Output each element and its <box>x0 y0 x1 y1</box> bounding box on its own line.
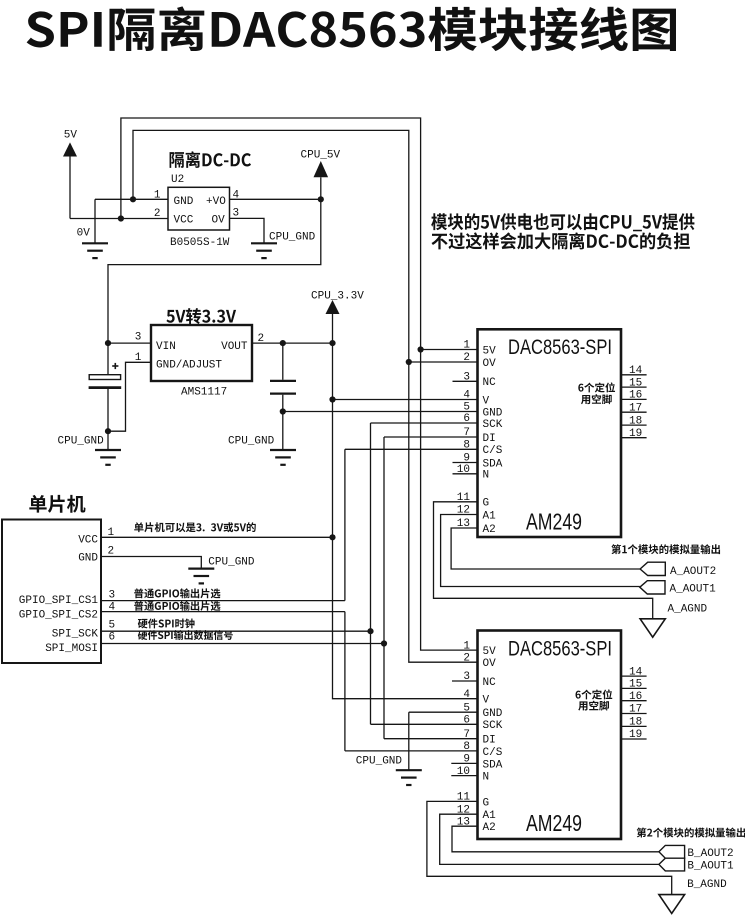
svg-text:AM249: AM249 <box>526 810 582 836</box>
svg-text:CPU_GND: CPU_GND <box>269 232 316 244</box>
note 6个定位 B <box>576 689 613 699</box>
wire VIN row <box>108 342 151 344</box>
wire 0V bus to DAC blocks <box>133 130 478 662</box>
svg-text:CPU_GND: CPU_GND <box>356 756 403 768</box>
svg-text:DI: DI <box>483 735 496 747</box>
dacB pin9 stub <box>451 762 477 764</box>
wire dacB A1 to B_AOUT1 <box>440 814 659 864</box>
dacA pin3 stub <box>453 380 478 382</box>
svg-text:G: G <box>483 498 490 510</box>
svg-text:DI: DI <box>483 433 496 445</box>
svg-text:3: 3 <box>109 590 116 602</box>
capacitor C2 output cap <box>282 343 284 380</box>
svg-text:2: 2 <box>108 546 115 558</box>
wire CPU_5V stem <box>320 177 322 199</box>
dacB pin10 stub <box>451 775 477 777</box>
ground symbol B_AGND open triangle <box>659 895 685 914</box>
wire dacB G to B_AGND <box>427 801 672 894</box>
wire dacB pin5 GND row <box>409 711 478 713</box>
svg-text:B_AGND: B_AGND <box>687 879 727 891</box>
svg-text:GND: GND <box>174 196 194 208</box>
junction SCK bus <box>367 628 373 634</box>
svg-text:DAC8563-SPI: DAC8563-SPI <box>508 638 612 661</box>
regulator U3 AMS1117 box <box>151 325 252 381</box>
wire GND/ADJUST to cap C1 bottom <box>108 362 151 431</box>
svg-text:6: 6 <box>109 632 116 644</box>
C1 plus sign <box>112 363 118 369</box>
svg-text:AM249: AM249 <box>526 509 582 535</box>
power symbol CPU_5V arrow <box>314 161 329 177</box>
svg-text:A_AOUT1: A_AOUT1 <box>670 584 717 596</box>
svg-text:5: 5 <box>109 620 116 632</box>
junction MOSI bus <box>381 640 387 646</box>
dacA pin9 stub <box>453 462 478 464</box>
label 隔离DC-DC <box>170 151 251 168</box>
svg-text:CPU_5V: CPU_5V <box>301 150 341 162</box>
note 普通GPIO输出片选 CS1 <box>134 588 220 598</box>
svg-text:SPI_SCK: SPI_SCK <box>52 629 99 641</box>
mcu block box <box>2 520 101 664</box>
svg-text:4: 4 <box>463 689 470 701</box>
note line1 模块的5V供电... <box>431 213 694 231</box>
wire CS2 row <box>101 611 345 613</box>
dacB pin16 stub <box>621 700 647 702</box>
svg-text:VIN: VIN <box>156 341 176 353</box>
junction C1 bottom node <box>105 428 111 434</box>
svg-text:CPU_GND: CPU_GND <box>58 436 105 448</box>
wire CPU_3.3V stem <box>332 314 334 343</box>
svg-text:OV: OV <box>212 215 226 227</box>
wire dacB pin6 SCK <box>371 723 478 725</box>
wire dacB pin8 C/S <box>345 750 478 752</box>
svg-text:VCC: VCC <box>174 215 194 227</box>
svg-text:CPU_3.3V: CPU_3.3V <box>311 291 364 303</box>
ground CPU_GND at dacB <box>396 770 422 785</box>
note line2 不过这样会... <box>431 232 689 249</box>
note 硬件SPI输出数据信号 <box>138 630 233 640</box>
svg-text:AMS1117: AMS1117 <box>181 387 227 399</box>
wire CPU_5V feed to regulator <box>108 199 321 343</box>
svg-text:3: 3 <box>233 208 240 220</box>
dacA pin17 stub <box>621 411 647 413</box>
svg-text:N: N <box>483 470 490 482</box>
svg-text:SDA: SDA <box>483 458 503 470</box>
wire 5V bus to DAC blocks <box>121 118 478 650</box>
wire dacA A1 to A_AOUT1 <box>441 515 640 587</box>
junction 0V bus / dacA pin2 <box>406 359 412 365</box>
wire VOUT row <box>252 342 333 344</box>
wire dacA pin4 to 3.3V rail <box>333 399 478 401</box>
dacA pin14 stub <box>621 374 647 376</box>
svg-text:2: 2 <box>154 208 161 220</box>
svg-text:GPIO_SPI_CS1: GPIO_SPI_CS1 <box>19 595 99 607</box>
wire dacB A2 to B_AOUT2 <box>452 826 659 852</box>
wire mcu VCC to 3.3V rail <box>101 536 333 538</box>
svg-text:GND: GND <box>483 407 503 419</box>
svg-text:C/S: C/S <box>483 445 503 457</box>
svg-text:5V: 5V <box>64 129 78 141</box>
wire 5V stem <box>69 157 71 219</box>
wire VCC row to U2 pin2 <box>70 218 168 220</box>
svg-text:U2: U2 <box>171 174 184 186</box>
junction 5V bus / VCC row <box>118 215 124 221</box>
wire dacA pin8 C/S <box>345 448 478 450</box>
port tag B_AOUT2 <box>659 845 685 858</box>
wire CS1 vertical to DAC1 pin8 <box>344 449 346 600</box>
title SPI隔离DAC8563模块接线图 <box>27 6 676 51</box>
capacitor C1 polarized input cap <box>107 343 109 375</box>
junction CPU_5V node <box>318 196 324 202</box>
junction 0V bus / GND row <box>130 196 136 202</box>
note 第1个模块的模拟量输出 <box>611 544 720 554</box>
wire GND row to U2 pin1 <box>95 198 168 200</box>
note 普通GPIO输出片选 CS2 <box>134 601 220 611</box>
svg-text:B0505S-1W: B0505S-1W <box>170 237 230 249</box>
dac module A box DAC8563-SPI <box>478 329 622 537</box>
dacA pin10 stub <box>453 473 478 475</box>
wire CS1 row <box>101 600 345 602</box>
svg-text:GPIO_SPI_CS2: GPIO_SPI_CS2 <box>19 610 98 622</box>
note 用空脚 A <box>581 394 612 404</box>
dacA pin19 stub <box>621 437 647 439</box>
svg-text:NC: NC <box>483 677 497 689</box>
svg-text:VOUT: VOUT <box>221 341 248 353</box>
dacA pin16 stub <box>621 398 647 400</box>
wire U2 OV to CPU_GND <box>230 218 265 243</box>
ground symbol A_AGND open triangle <box>640 619 665 637</box>
svg-text:+VO: +VO <box>206 196 226 208</box>
wire dacB pin7 DI <box>384 738 478 740</box>
ground 0V <box>82 243 108 258</box>
svg-text:CPU_GND: CPU_GND <box>228 436 275 448</box>
label 5V转3.3V <box>166 308 236 324</box>
port tag A_AOUT1 <box>640 581 665 594</box>
svg-text:SCK: SCK <box>483 419 503 431</box>
svg-text:A_AGND: A_AGND <box>668 604 708 616</box>
note 单片机可以是3.3V或5V的 <box>134 522 256 532</box>
dacB pin15 stub <box>621 687 647 689</box>
note 第2个模块的模拟量输出 <box>637 827 745 837</box>
svg-text:OV: OV <box>483 658 497 670</box>
junction C2 / DAC1 GND row <box>280 408 286 414</box>
wire CS2 vertical to DAC2 pin8 <box>344 612 346 751</box>
port tag A_AOUT2 <box>640 562 665 575</box>
wire dacA G to A_AGND <box>434 502 653 619</box>
dacB pin19 stub <box>621 738 647 740</box>
junction 5V bus / dacA pin1 <box>418 346 424 352</box>
wire DI vertical bus <box>383 437 385 739</box>
wire dacA A2 to A_AOUT2 <box>451 528 640 569</box>
svg-text:N: N <box>483 772 490 784</box>
wire dacA pin5 GND row <box>283 411 478 413</box>
svg-text:NC: NC <box>483 377 497 389</box>
svg-text:C/S: C/S <box>483 747 503 759</box>
svg-text:G: G <box>483 797 490 809</box>
svg-text:V: V <box>483 695 490 707</box>
svg-text:2: 2 <box>463 652 470 664</box>
wire MOSI row <box>101 643 384 645</box>
svg-text:SCK: SCK <box>483 720 503 732</box>
dacB pin14 stub <box>621 675 647 677</box>
svg-text:GND: GND <box>78 553 98 565</box>
wire U2 +VO to CPU_5V <box>230 198 321 200</box>
dacB pin18 stub <box>621 725 647 727</box>
svg-text:SPI_MOSI: SPI_MOSI <box>45 643 98 655</box>
note 6个定位 A <box>578 382 615 392</box>
svg-text:5V: 5V <box>483 345 497 357</box>
svg-text:0V: 0V <box>77 228 91 240</box>
wire dacA pin1 5V <box>421 349 478 351</box>
ground CPU_GND at U2 <box>251 243 277 258</box>
svg-text:GND: GND <box>483 708 503 720</box>
svg-text:A1: A1 <box>483 810 497 822</box>
svg-text:3: 3 <box>135 332 142 344</box>
svg-text:V: V <box>483 395 490 407</box>
wire dacA pin7 DI <box>384 436 478 438</box>
dacA pin18 stub <box>621 424 647 426</box>
svg-text:A2: A2 <box>483 524 496 536</box>
wire 3.3V rail down to DAC2 pin4 <box>333 343 478 699</box>
svg-text:1: 1 <box>463 640 470 652</box>
svg-text:A2: A2 <box>483 822 496 834</box>
power symbol CPU_3.3V arrow <box>326 300 340 314</box>
junction rail / dacA pin4 <box>329 396 335 402</box>
wire dacA pin6 SCK <box>371 422 478 424</box>
wire SCK vertical bus <box>370 423 372 724</box>
note 用空脚 B <box>578 701 609 711</box>
wire 0V drop <box>94 199 96 242</box>
wire dacB GND drop <box>408 712 410 770</box>
dacA pin15 stub <box>621 386 647 388</box>
svg-text:CPU_GND: CPU_GND <box>208 557 255 569</box>
svg-text:5V: 5V <box>483 646 497 658</box>
svg-text:1: 1 <box>154 190 161 202</box>
power symbol 5V arrow <box>63 142 77 156</box>
svg-text:B_AOUT2: B_AOUT2 <box>687 848 733 860</box>
label 单片机 <box>29 495 85 513</box>
note 硬件SPI时钟 <box>138 618 195 628</box>
svg-text:B_AOUT1: B_AOUT1 <box>687 860 734 872</box>
dac module B box DAC8563-SPI <box>478 631 622 840</box>
junction VOUT / 3.3V rail <box>329 340 335 346</box>
svg-text:A_AOUT2: A_AOUT2 <box>670 566 716 578</box>
wire mcu GND to CPU_GND <box>101 557 201 569</box>
dc-dc converter U2 box <box>168 187 230 230</box>
svg-text:GND/ADJUST: GND/ADJUST <box>156 360 222 372</box>
svg-text:A1: A1 <box>483 510 497 522</box>
wire SCK row <box>101 630 371 632</box>
svg-text:DAC8563-SPI: DAC8563-SPI <box>508 336 612 359</box>
port tag B_AOUT1 <box>659 858 685 871</box>
junction VIN node <box>105 340 111 346</box>
wire dacA pin2 OV <box>409 361 478 363</box>
dacB pin17 stub <box>621 713 647 715</box>
ground CPU_GND at C2 <box>270 450 296 465</box>
svg-text:SDA: SDA <box>483 759 503 771</box>
ground CPU_GND at C1 <box>95 450 121 465</box>
junction mcu VCC / rail <box>329 534 335 540</box>
svg-text:OV: OV <box>483 358 497 370</box>
ground CPU_GND at mcu <box>188 569 214 584</box>
svg-text:VCC: VCC <box>78 535 98 547</box>
dacB pin3 stub <box>452 680 478 682</box>
junction VOUT / C2 <box>280 340 286 346</box>
